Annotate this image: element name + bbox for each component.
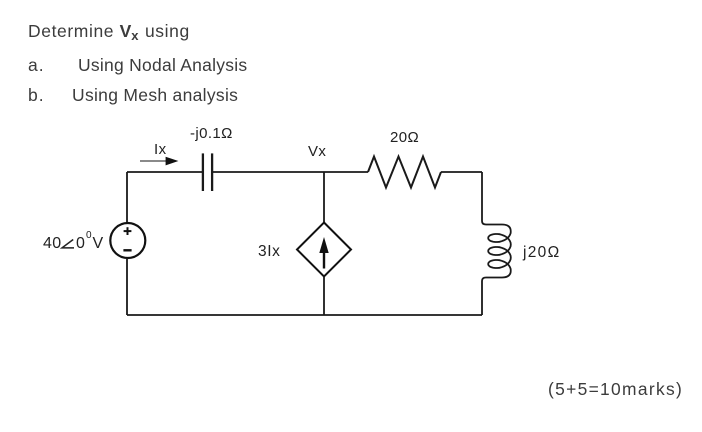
capacitor C1: right plate [211,153,213,191]
inductor L1 coil loops [488,232,511,271]
svg-text:3Ix: 3Ix [258,243,280,260]
wire: right branch upper (top corner down to inductor) [481,172,483,221]
svg-text:b.: b. [28,85,45,105]
svg-text:V: V [93,235,104,252]
inductor L1 top lead [482,221,511,232]
wire: top-left segment from left corner to capacitor [127,171,202,173]
wire: bottom wire [127,314,482,316]
dependent source arrow head [319,237,328,253]
svg-text:(5+5=10marks): (5+5=10marks) [548,379,683,399]
svg-text:Determine Vx using: Determine Vx using [28,21,190,43]
svg-text:-j0.1Ω: -j0.1Ω [190,125,233,142]
wire: top-right segment resistor to right corner [441,171,482,173]
svg-text:Using Mesh analysis: Using Mesh analysis [72,85,238,105]
wire: middle branch upper (node Vx down to diamond) [323,172,325,223]
resistor R1 20 ohm zigzag [368,157,441,188]
angle symbol [62,240,74,248]
capacitor C1 -j0.1 ohm: left plate [202,153,204,191]
svg-text:0: 0 [76,235,85,252]
voltage source minus sign [123,249,131,251]
voltage source V1 circle [110,223,145,258]
current arrow Ix shaft [140,160,170,162]
svg-text:Using Nodal Analysis: Using Nodal Analysis [78,55,247,75]
current arrow Ix head [166,157,179,166]
svg-text:40: 40 [43,235,61,252]
svg-text:20Ω: 20Ω [390,129,419,146]
svg-text:Vx: Vx [308,143,326,160]
svg-text:Ix: Ix [154,141,167,158]
inductor L1 bottom lead [482,271,511,316]
svg-text:a.: a. [28,55,45,75]
wire: middle branch lower (diamond down to bottom wire) [323,277,325,316]
svg-text:0: 0 [86,230,92,241]
wire: top middle segment capacitor to resistor (through node Vx) [213,171,368,173]
voltage source plus sign [124,230,132,232]
dependent current source 3Ix diamond [297,223,351,277]
dependent source arrow shaft [323,248,325,269]
wire: left branch upper (corner down to source) [126,172,128,223]
svg-text:j20Ω: j20Ω [522,244,560,261]
wire: left branch lower (source down to bottom corner) [126,258,128,315]
